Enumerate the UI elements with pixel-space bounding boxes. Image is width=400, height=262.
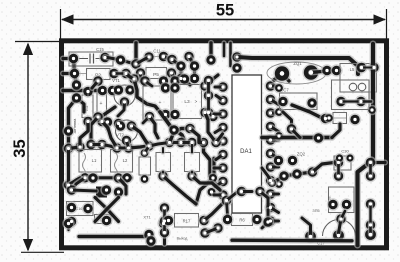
pad bottom mid2 [199,222,224,239]
wire r17 diag [204,194,233,220]
wire big snake [160,112,186,144]
svg-text:C30: C30 [341,149,349,154]
pad pair cluster [172,50,201,84]
wire bottom gnd rail [232,237,352,244]
wire bottom rail [79,228,155,240]
wire zq1 left [274,74,289,82]
wire diag br2 [242,189,253,195]
wire vt3 left [302,218,311,237]
coil L1 [79,150,102,178]
diode D5 [65,214,112,227]
transistor VT1 [112,78,136,108]
resistor R17 [162,214,210,228]
svg-text:55: 55 [216,2,234,20]
svg-text:L1: L1 [92,158,97,163]
connector XT1 [143,202,170,239]
mid pad row [62,136,222,154]
wire c7 diag [292,105,332,125]
wire top feed drop2 [205,43,217,66]
wire da1 stub a [221,43,226,56]
wire mesh a [80,122,88,148]
extension line top-left [60,9,62,41]
wire mesh g [216,134,223,143]
label bottom tiny [177,237,189,241]
svg-text:L5: L5 [350,67,355,72]
wire l5 link [362,65,375,70]
svg-text:<: < [147,101,150,106]
svg-text:35: 35 [11,139,29,157]
pad node top1 [114,54,126,66]
svg-text:L3: L3 [184,99,190,105]
wire mesh b [102,122,117,149]
svg-text:Выход: Выход [177,237,189,241]
wire top feed drop [130,43,142,70]
svg-text:VT1: VT1 [112,78,120,83]
dimension line 35 with arrows [23,43,33,252]
wire mesh c [132,126,150,146]
wire l1 l2 bottom [79,172,133,185]
wire right rail [358,44,374,245]
crystal ZQ2 [272,152,305,167]
black pad rect [65,184,124,198]
box right mid [332,80,372,110]
coil L2 [111,150,133,178]
wire cluster stub [108,74,135,130]
wire left ground chain [69,59,77,149]
pad grid right [332,153,376,182]
pad node left mid [62,149,80,192]
resistor P5 [134,67,177,79]
transistor VT2 [114,120,137,147]
capacitor C16 [65,201,94,215]
pad da1 top pair [231,51,243,74]
svg-text:XT1: XT1 [143,215,151,220]
antenna label [73,118,77,134]
wire border stub b [63,71,75,77]
wire left chain3 [91,117,98,145]
extension line left-bottom [21,251,64,253]
ic DA1 right pins [264,80,276,227]
svg-text:ZQ1: ZQ1 [293,61,302,66]
wire da1 bottom [262,210,274,228]
coil L3 [169,80,219,123]
resistor P2 [68,67,132,79]
ic DA1 body [232,75,262,213]
wire mid diag2 [292,129,301,138]
svg-text:P5: P5 [153,72,159,78]
wire mesh h [150,117,159,139]
wire left chain2 [77,98,85,112]
wire long top rail [237,57,358,74]
capacitor C6 box [143,82,172,123]
capacitor C8 [96,84,119,127]
resistor R6 [221,213,263,225]
dimension line 55 with arrows [61,14,386,24]
wire cross a [95,198,119,222]
wire r4 r8 mesh [163,176,196,204]
wire bottom right mesh [260,192,268,211]
wires DA1 right stubs [271,86,279,221]
wire zq2 to grid [313,163,335,173]
mid row links [69,143,182,149]
pad left chain extra [62,79,82,137]
wire p5 drops [141,73,191,88]
resistor R4 [156,148,171,182]
wire mesh b2 [91,142,102,148]
wire l1 down [72,178,86,190]
svg-text:ZQ2: ZQ2 [297,152,306,157]
wire zq2 link [262,168,272,183]
wire mid diag [283,112,298,135]
wire zq2 mesh [267,166,319,189]
wire top elbow [105,57,133,64]
wire vt1 base [118,102,125,116]
resistor R8 [185,143,200,183]
wire border stub c [63,87,100,93]
label C17 [317,241,325,246]
wire diag bottom right [227,185,267,200]
pads right of DA1 [274,83,285,190]
svg-text:C7: C7 [283,88,289,93]
pad cluster mid [101,116,124,130]
label 3p5 [312,209,319,213]
wire r8 diag [192,176,220,190]
wires DA1 left stubs [214,87,223,195]
capacitor C15 [67,47,113,66]
transistor VT3 pads [304,211,378,243]
wire bottom rail left [62,217,74,230]
svg-text:L2: L2 [123,158,128,163]
wire rail-border link [367,105,385,163]
wire p5 right [164,53,179,65]
wire c6 bottom [143,117,150,124]
wire mid rail [262,132,332,144]
wire da1 left down [196,158,219,204]
svg-text:ЗП5: ЗП5 [312,209,319,213]
wire l3 top link [145,75,218,86]
wire border stub a [63,56,74,62]
wire cross b [95,198,119,222]
ic DA1 left pins [217,81,229,201]
coil L5 [340,61,380,92]
svg-text:C15: C15 [96,47,104,52]
wire da1 stub b [228,43,233,66]
pad holes overlay [67,55,376,243]
extension line left-top [15,41,60,43]
capacitor C18 [327,187,354,213]
capacitor C13 [139,146,151,184]
svg-text:+: + [100,101,103,107]
wire mid rail up [332,124,340,138]
wire l2 down [119,178,127,194]
wire snake vt1 [134,79,160,112]
dimension label 35 [11,139,29,157]
resistor R3 [82,85,94,127]
pad right column [364,198,376,231]
board outline [62,41,387,248]
wire mesh e [190,129,204,143]
capacitor C7 [277,88,318,110]
wire r6 feed [227,201,228,216]
pad row C [92,73,191,88]
wire snake left [92,107,115,123]
wire mesh j [181,140,192,146]
svg-text:>: > [195,99,198,104]
dimension label 55 [216,2,234,20]
svg-text:R17: R17 [183,219,191,224]
extension line top-right [386,9,388,41]
svg-text:+: + [159,100,162,106]
pad column pre-da1 [202,74,214,118]
capacitor C30 [334,149,351,171]
wire mesh i [117,141,129,149]
transistor VT3 outline [323,220,356,236]
svg-text:R6: R6 [239,218,245,223]
wire zq1 right [311,64,343,76]
svg-text:DA1: DA1 [240,149,252,155]
capacitor C11 [143,49,170,64]
capacitor C9 [324,113,361,126]
crystal ZQ1 [267,61,326,84]
wire xt1 gnd [162,233,168,245]
wire mesh f [205,113,216,143]
wire down col [204,143,221,191]
wire c11 link [136,57,149,64]
pad bottom mid [145,217,170,247]
wire mesh d [168,122,196,142]
